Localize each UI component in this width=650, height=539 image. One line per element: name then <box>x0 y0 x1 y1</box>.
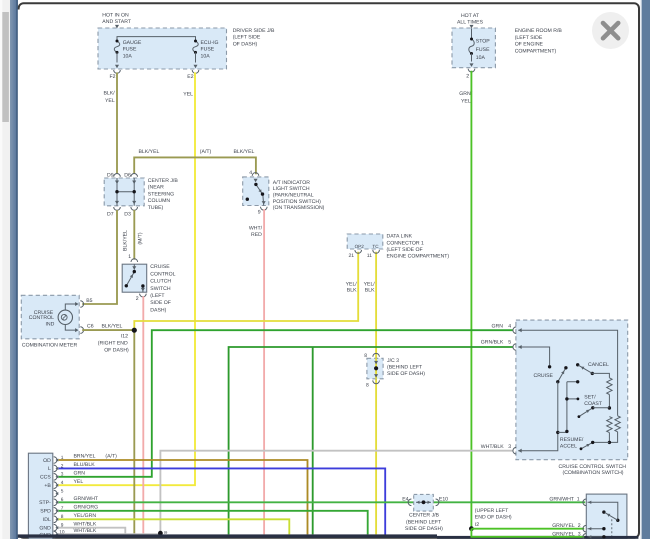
svg-text:L: L <box>48 466 51 472</box>
svg-text:B5: B5 <box>86 298 92 304</box>
meter COMBINATION METER <box>21 295 79 339</box>
wire GRN/YEL from I2 to stop light switch pin 3 <box>471 529 584 537</box>
resistor R1 <box>607 378 612 395</box>
svg-text:(NEAR: (NEAR <box>148 185 164 191</box>
svg-text:D7: D7 <box>107 212 114 218</box>
svg-text:21: 21 <box>349 253 355 259</box>
svg-text:HOT AT: HOT AT <box>461 13 480 19</box>
svg-text:(A/T): (A/T) <box>200 149 212 155</box>
pin 21 <box>355 250 362 253</box>
pin 11 <box>373 250 380 253</box>
svg-text:1: 1 <box>577 497 580 503</box>
svg-text:TC: TC <box>372 244 379 249</box>
svg-text:GRN/WHT: GRN/WHT <box>74 496 99 502</box>
A/T switch contacts <box>256 184 264 205</box>
svg-text:BLK/YEL: BLK/YEL <box>102 324 123 330</box>
svg-text:5: 5 <box>508 339 511 345</box>
diagram cut-off bar right <box>437 536 638 539</box>
pin F2 <box>114 70 121 73</box>
svg-text:CLUTCH: CLUTCH <box>150 279 171 285</box>
wire GRN/BLK stub down (cut off) <box>312 347 314 534</box>
pin B5 <box>80 301 83 308</box>
pin C6 <box>80 327 83 334</box>
wire WHT/BLK from ECU pin 10 to ground splice <box>59 533 161 535</box>
svg-text:BLK/: BLK/ <box>104 91 116 97</box>
svg-text:SET/: SET/ <box>584 394 596 400</box>
wire GRN/ORG from ECU pin 7 down (cut off) <box>59 511 368 535</box>
cruise control indicator lamp <box>58 310 72 324</box>
svg-text:STEERING: STEERING <box>148 191 174 197</box>
svg-text:SPD: SPD <box>40 509 51 515</box>
diagram cut-off bar left <box>18 534 437 537</box>
svg-text:GRN: GRN <box>74 470 86 476</box>
wire WHT/RED from clutch switch pin 2 down (cut off) <box>142 296 144 534</box>
svg-text:CONNECTOR 1: CONNECTOR 1 <box>387 240 424 246</box>
svg-text:ENGINE COMPARTMENT): ENGINE COMPARTMENT) <box>387 254 450 260</box>
svg-text:2: 2 <box>466 74 469 80</box>
resistor R3 <box>615 416 620 432</box>
wire BLK/YEL branch D6 to A/T indicator switch <box>134 157 256 174</box>
node junction I2 <box>469 526 474 531</box>
svg-text:BLK/YEL: BLK/YEL <box>122 230 128 251</box>
svg-text:+B: +B <box>44 483 51 489</box>
connector cruise control ECU <box>28 453 52 539</box>
wire BLK/YEL from junction I12 down (cut off) <box>133 330 135 534</box>
svg-text:DATA LINK: DATA LINK <box>387 234 413 240</box>
svg-text:(LEFT SIDE OF: (LEFT SIDE OF <box>387 247 423 253</box>
wire YEL/GRN from ECU pin 8 down (cut off) <box>59 519 290 534</box>
svg-text:FUSE: FUSE <box>123 47 137 53</box>
svg-text:GRN/WHT: GRN/WHT <box>549 497 574 503</box>
svg-text:TUBE): TUBE) <box>148 205 164 211</box>
stop light switch pin 1 <box>583 499 586 506</box>
internal wiring of center J/B <box>117 178 134 206</box>
svg-text:J/C 3: J/C 3 <box>387 358 399 364</box>
svg-text:STP-: STP- <box>39 500 51 506</box>
svg-text:CRUISE: CRUISE <box>150 264 170 270</box>
secondary rail <box>558 382 578 433</box>
svg-text:CENTER J/B: CENTER J/B <box>148 178 179 184</box>
svg-text:YEL/GRN: YEL/GRN <box>74 513 97 519</box>
svg-text:DASH): DASH) <box>150 307 166 313</box>
svg-text:E4: E4 <box>402 497 408 503</box>
stop light switch pin 3 <box>583 534 586 539</box>
svg-text:1: 1 <box>128 254 131 260</box>
svg-text:ENGINE ROOM R/B: ENGINE ROOM R/B <box>515 28 563 34</box>
svg-text:OD: OD <box>43 458 51 464</box>
switch A/T indicator light switch <box>243 177 269 206</box>
svg-text:RED: RED <box>251 232 262 238</box>
internal feed from pin 5 to CRUISE contact <box>518 347 549 365</box>
svg-text:DRIVER SIDE J/B: DRIVER SIDE J/B <box>233 28 275 34</box>
svg-text:POSITION SWITCH): POSITION SWITCH) <box>273 199 321 205</box>
svg-text:GRN: GRN <box>492 324 504 330</box>
common rail to pin 3 <box>518 382 558 451</box>
svg-text:CANCEL: CANCEL <box>588 362 609 368</box>
svg-text:YEL: YEL <box>461 98 471 104</box>
svg-text:D9: D9 <box>107 173 114 179</box>
fuse STOP FUSE 10A <box>469 39 474 54</box>
pin 2 of clutch switch <box>140 294 147 297</box>
svg-text:GND: GND <box>39 526 51 532</box>
svg-text:COMPARTMENT): COMPARTMENT) <box>515 49 557 55</box>
svg-text:2: 2 <box>578 523 581 529</box>
wire BLU/BLK from ECU pin 2 down (cut off) <box>59 468 386 536</box>
wire hot feed into stop fuse <box>469 25 473 29</box>
pin D7 <box>114 207 121 210</box>
svg-text:(BEHIND LEFT: (BEHIND LEFT <box>387 365 423 371</box>
svg-text:CCS: CCS <box>40 475 51 481</box>
svg-text:OF DASH): OF DASH) <box>233 41 258 47</box>
svg-text:HOT IN ON: HOT IN ON <box>102 12 129 18</box>
svg-text:OP2: OP2 <box>355 244 365 249</box>
svg-text:END OF DASH): END OF DASH) <box>475 515 512 521</box>
fuse GAUGE FUSE 10A <box>114 41 119 52</box>
node junction I12 <box>132 328 137 333</box>
svg-text:C6: C6 <box>87 324 94 330</box>
pin 2 of engine room R/B <box>468 69 475 72</box>
wire BRN/YEL from ECU pin 1 (A/T) down (cut off) <box>59 460 308 534</box>
svg-text:LIGHT SWITCH: LIGHT SWITCH <box>273 186 310 192</box>
svg-text:E10: E10 <box>439 497 448 503</box>
svg-text:YEL: YEL <box>105 98 115 104</box>
pin 4 <box>513 327 516 334</box>
pin D3 <box>131 207 138 210</box>
wire YEL/BLK from data link pin 21 to junction I12 <box>134 252 358 330</box>
svg-text:(COMBINATION SWITCH): (COMBINATION SWITCH) <box>563 470 624 476</box>
resistor R2 <box>607 417 612 433</box>
svg-text:SIDE OF DASH): SIDE OF DASH) <box>405 526 443 532</box>
svg-text:(PARK/NEUTRAL: (PARK/NEUTRAL <box>273 193 314 199</box>
RESUME/ACCEL contact and arm <box>581 442 609 448</box>
svg-text:I2: I2 <box>475 522 479 528</box>
pin 1 of clutch switch <box>131 259 138 262</box>
svg-text:(A/T): (A/T) <box>105 454 117 460</box>
stop light switch internal contacts <box>588 502 618 519</box>
svg-text:BLK: BLK <box>347 288 357 294</box>
scrollbar thumb <box>2 12 9 122</box>
connector CENTER J/B E4/E10 <box>414 494 434 511</box>
svg-text:A/T INDICATOR: A/T INDICATOR <box>273 180 310 186</box>
switch stop light switch <box>586 494 627 538</box>
right blue backdrop strip <box>641 0 650 539</box>
junction block J1 DRIVER SIDE J/B <box>98 28 227 69</box>
svg-text:E2: E2 <box>187 74 193 80</box>
wire GRN/BLK to cruise switch pin 5 (cut off below) <box>229 347 514 534</box>
junction block R/B ENGINE ROOM <box>452 28 495 68</box>
svg-text:COLUMN: COLUMN <box>148 198 171 204</box>
svg-text:SIDE OF: SIDE OF <box>150 300 171 306</box>
wire BLK/YEL (M/T) from D3 down to clutch switch <box>133 210 135 260</box>
svg-text:(LEFT SIDE: (LEFT SIDE <box>515 35 543 41</box>
svg-text:(M/T): (M/T) <box>138 232 144 245</box>
svg-text:BLK/YEL: BLK/YEL <box>234 149 255 155</box>
svg-text:GRN/ORG: GRN/ORG <box>74 504 99 510</box>
svg-text:2: 2 <box>136 296 139 302</box>
svg-text:4: 4 <box>508 324 511 330</box>
wire YEL from fuse E2 down to +B pin 4 <box>59 72 196 485</box>
svg-text:(LEFT SIDE: (LEFT SIDE <box>233 35 261 41</box>
svg-text:STOP: STOP <box>476 39 490 45</box>
pin 5 <box>513 344 516 351</box>
node ground splice I9 <box>158 531 163 536</box>
pin D9 <box>114 174 121 177</box>
connector DATA LINK CONNECTOR 1 <box>347 234 383 249</box>
svg-text:COMBINATION METER: COMBINATION METER <box>22 343 78 349</box>
svg-text:I12: I12 <box>121 334 128 340</box>
wire WHT/BLK from ECU pin 9 down (cut off) <box>59 528 126 535</box>
pin D6 <box>131 173 138 176</box>
svg-text:FUSE: FUSE <box>201 47 215 53</box>
svg-text:4: 4 <box>61 480 64 486</box>
internal feed from pin 4 to resistor ladder <box>518 330 617 416</box>
wire BLK/YEL from D7 down to combination meter B5 <box>82 210 117 304</box>
wire GRN from ECU pin 3 CCS up to cruise switch pin 4 <box>59 330 514 477</box>
svg-text:ALL TIMES: ALL TIMES <box>457 20 484 26</box>
svg-text:BLK/YEL: BLK/YEL <box>139 149 160 155</box>
svg-text:10A: 10A <box>201 54 211 60</box>
svg-text:3: 3 <box>508 444 511 450</box>
svg-text:GRN/BLK: GRN/BLK <box>481 339 504 345</box>
svg-text:9: 9 <box>258 209 261 215</box>
ECU pin 5 <box>54 490 57 497</box>
svg-text:YEL: YEL <box>183 92 193 98</box>
svg-text:BRN/YEL: BRN/YEL <box>74 454 96 460</box>
svg-text:SIDE OF DASH): SIDE OF DASH) <box>387 371 425 377</box>
svg-text:CONTROL: CONTROL <box>29 315 54 321</box>
svg-text:D3: D3 <box>124 212 131 218</box>
svg-text:IND: IND <box>46 322 55 328</box>
svg-text:5: 5 <box>61 489 64 495</box>
svg-text:CRUISE CONTROL SWITCH: CRUISE CONTROL SWITCH <box>559 464 627 470</box>
svg-text:(BEHIND LEFT: (BEHIND LEFT <box>406 519 442 525</box>
svg-text:ECU-IG: ECU-IG <box>201 40 219 46</box>
pin E2 <box>192 70 199 73</box>
svg-text:D6: D6 <box>124 173 131 179</box>
svg-text:(RIGHT END: (RIGHT END <box>98 341 128 347</box>
wire BLK/YEL from fuse F2 down to D9 <box>116 72 118 173</box>
svg-text:(LEFT: (LEFT <box>150 293 165 299</box>
svg-text:BLU/BLK: BLU/BLK <box>74 462 96 468</box>
svg-text:(UPPER LEFT: (UPPER LEFT <box>475 508 509 514</box>
wire WHT/BLK from ground splice up to cruise switch pin 3 <box>160 451 513 534</box>
bus link between fuses <box>117 37 196 41</box>
svg-text:IDL: IDL <box>43 517 51 523</box>
svg-text:11: 11 <box>367 253 372 259</box>
CANCEL contact and arm <box>576 363 579 366</box>
svg-text:FUSE: FUSE <box>476 47 490 53</box>
svg-text:F2: F2 <box>110 74 116 80</box>
svg-text:CENTER J/B: CENTER J/B <box>409 513 440 519</box>
svg-text:(ON TRANSMISSION): (ON TRANSMISSION) <box>273 205 325 211</box>
wire GRN/WHT from ECU pin 6 to stop light switch pin 1 <box>59 501 586 503</box>
svg-text:10A: 10A <box>123 54 133 60</box>
svg-text:BLK: BLK <box>365 288 375 294</box>
svg-text:GRN/YEL: GRN/YEL <box>552 532 575 538</box>
SET/COAST stub <box>567 398 578 400</box>
scrollbar track <box>0 0 10 539</box>
svg-text:COAST: COAST <box>584 401 603 407</box>
svg-text:GAUGE: GAUGE <box>123 40 142 46</box>
svg-text:10A: 10A <box>476 55 486 61</box>
wire YEL/BLK from data link pin 11 down through J/C 3 (cut off) <box>375 252 377 535</box>
svg-text:ACCEL: ACCEL <box>560 444 577 450</box>
SET/COAST contact and arm <box>591 406 594 409</box>
fuse ECU-IG FUSE 10A <box>193 41 198 52</box>
svg-text:SWITCH: SWITCH <box>150 286 171 292</box>
wire GRN/YEL from stop fuse down to I2 <box>470 71 472 529</box>
svg-text:YEL/: YEL/ <box>346 281 358 287</box>
wire WHT/RED from A/T switch pin 9 down (cut off) <box>263 209 265 534</box>
svg-text:WHT/BLK: WHT/BLK <box>481 444 504 450</box>
svg-text:3: 3 <box>578 532 581 538</box>
svg-text:YEL/: YEL/ <box>364 281 376 287</box>
svg-text:3: 3 <box>61 472 64 478</box>
switch CRUISE CONTROL SWITCH (combination switch) <box>516 320 628 460</box>
switch cruise control clutch switch <box>122 264 147 292</box>
svg-text:AND START: AND START <box>102 19 132 25</box>
pin 4 of A/T switch <box>252 173 259 176</box>
svg-text:CONTROL: CONTROL <box>150 271 175 277</box>
svg-text:CRUISE: CRUISE <box>534 373 554 379</box>
wire GRN/YEL from I2 to stop light switch pin 2 <box>471 528 584 530</box>
junction block CENTER J/B near steering column <box>104 178 144 206</box>
stop light switch pin 2 <box>583 525 586 532</box>
svg-text:8: 8 <box>366 383 369 389</box>
svg-text:WHT/BLK: WHT/BLK <box>74 521 97 527</box>
wire BLK/YEL from meter C6 to junction I12 <box>82 329 134 331</box>
wire hot feed into gauge fuse <box>115 25 119 29</box>
lamp leads to pins B5 and C6 <box>65 304 77 330</box>
svg-text:RESUME/: RESUME/ <box>560 437 584 443</box>
pin 9 of A/T switch <box>261 207 268 210</box>
close (X) button <box>592 12 629 49</box>
clutch switch contacts <box>126 272 143 292</box>
svg-text:OF ENGINE: OF ENGINE <box>515 42 544 48</box>
svg-text:GRN/YEL: GRN/YEL <box>552 523 575 529</box>
svg-text:YEL: YEL <box>74 479 84 485</box>
svg-text:OF DASH): OF DASH) <box>104 348 129 354</box>
main switch arm <box>558 369 566 382</box>
svg-text:WHT/: WHT/ <box>249 225 263 231</box>
pin 3 <box>513 447 516 454</box>
svg-text:4: 4 <box>249 170 252 176</box>
